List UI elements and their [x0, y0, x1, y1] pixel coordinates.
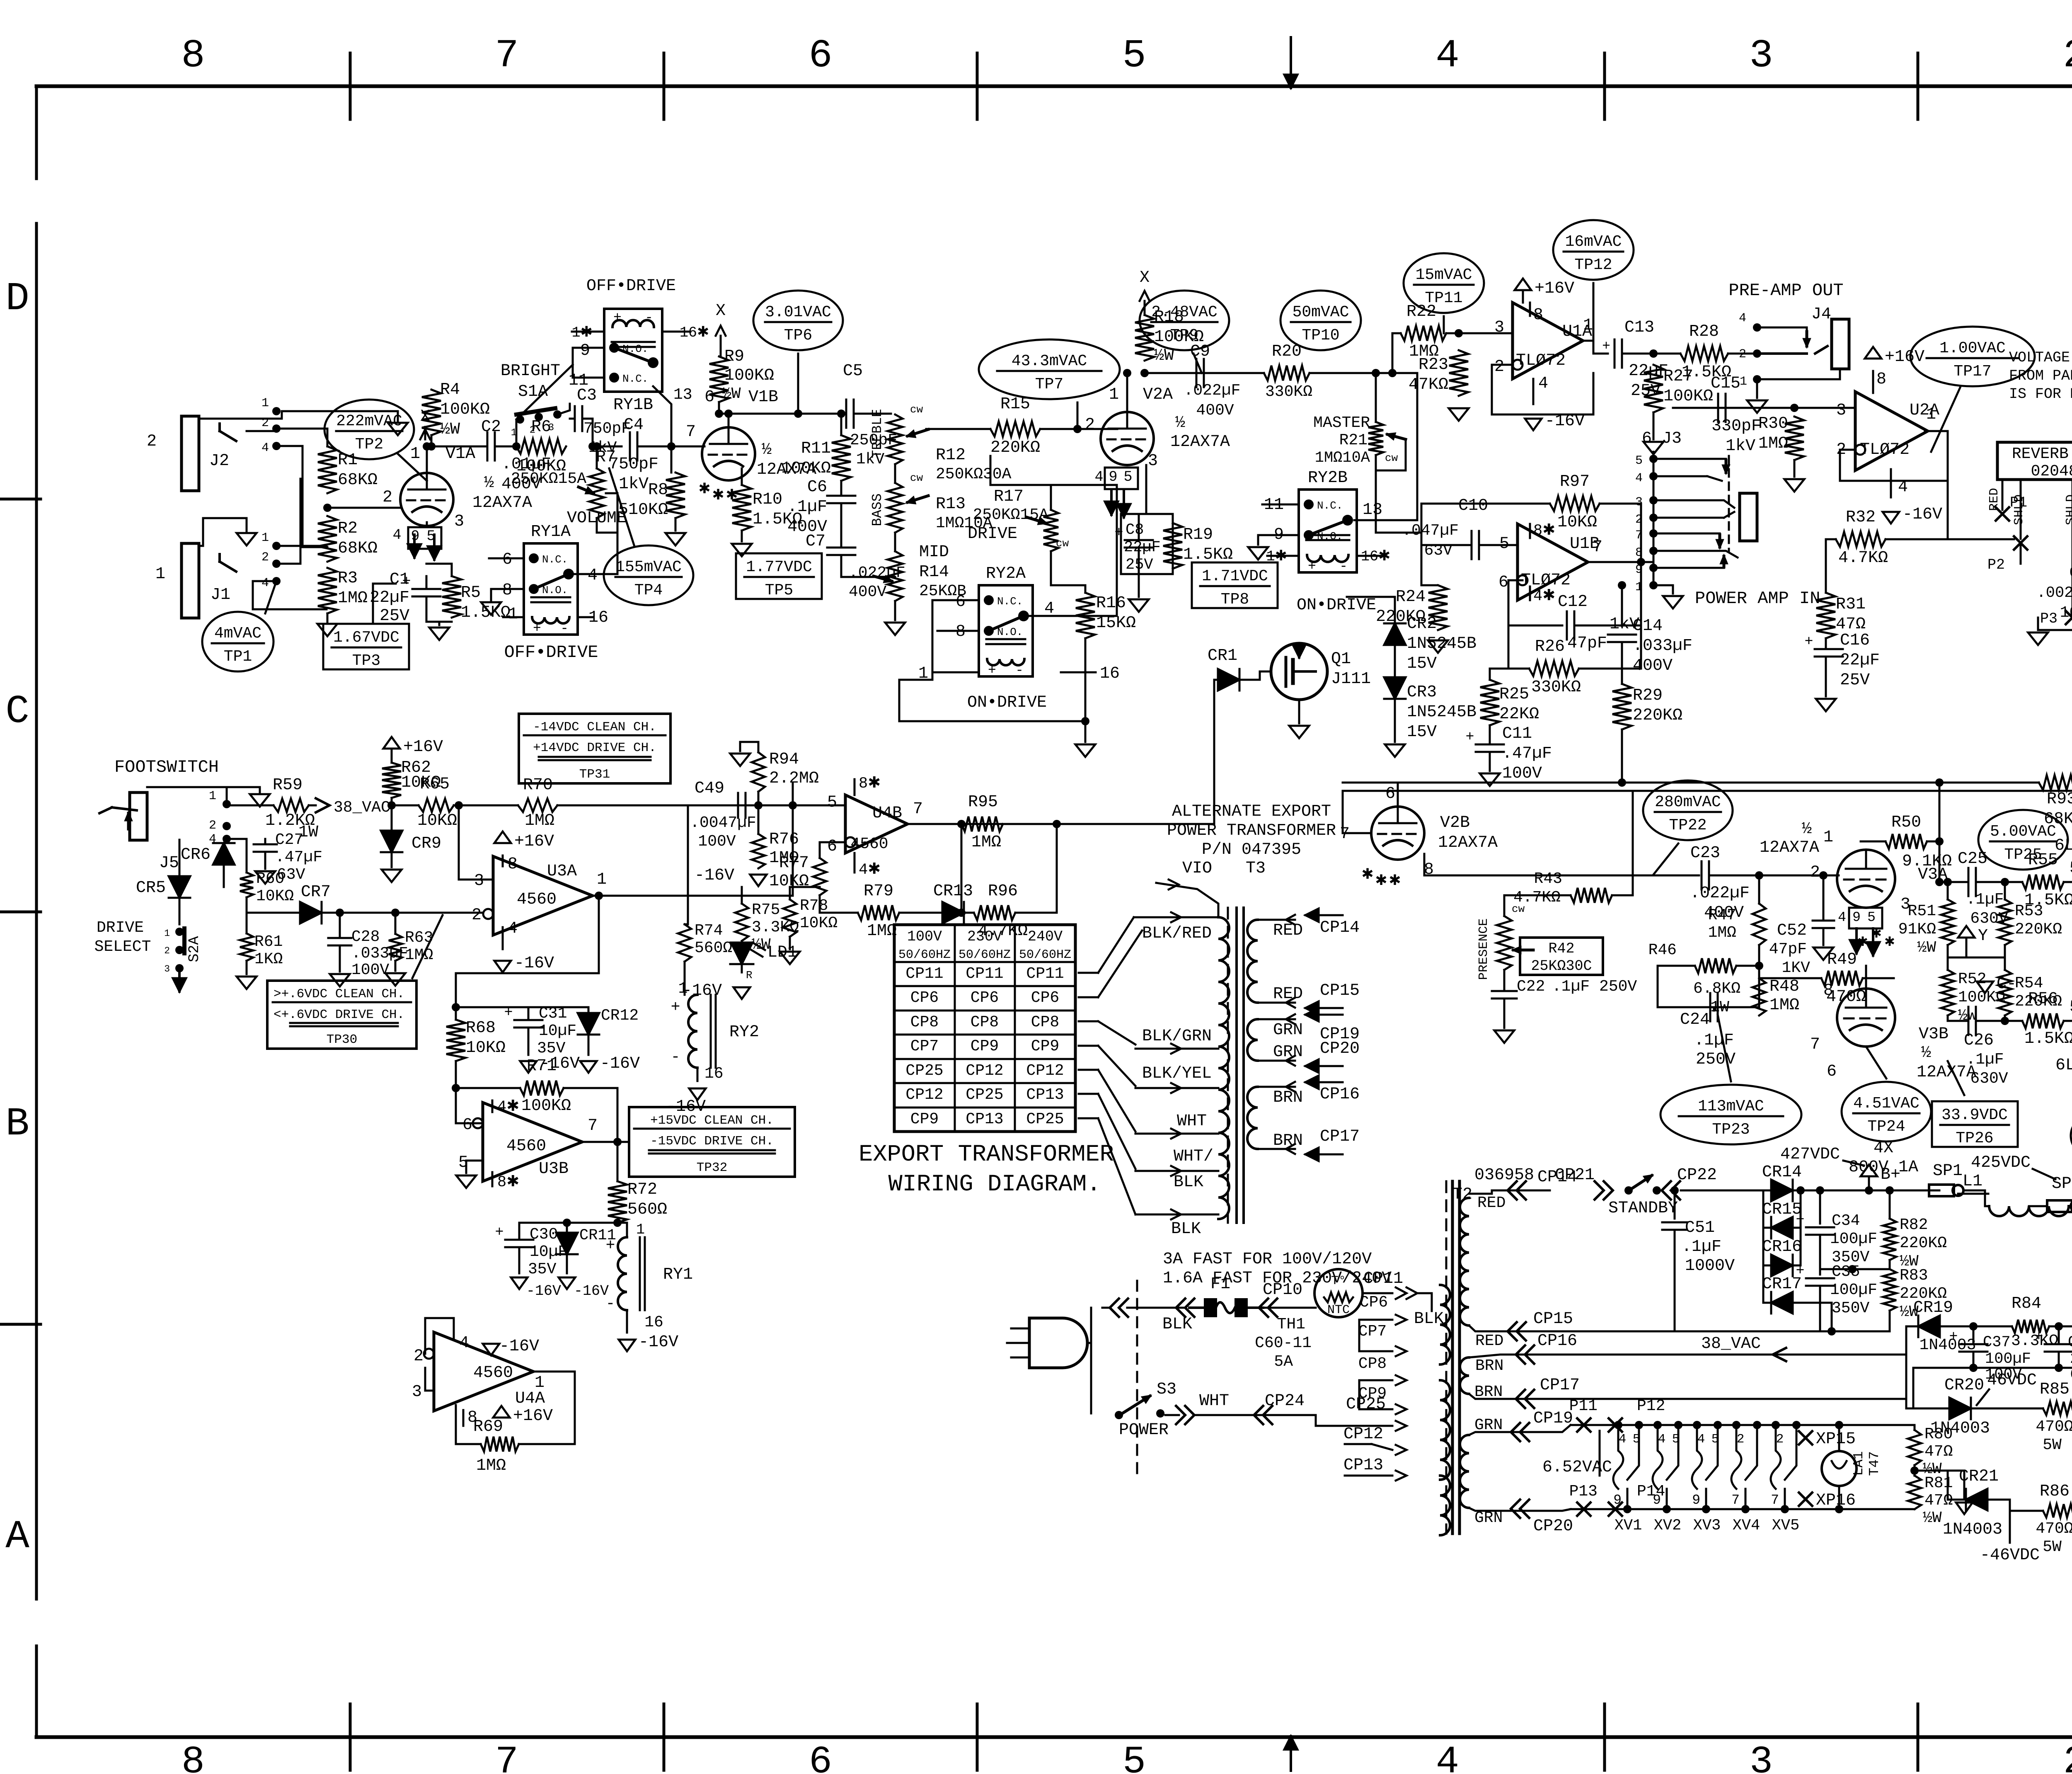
svg-text:WHT: WHT — [1199, 1392, 1229, 1410]
svg-text:4: 4 — [1538, 374, 1548, 393]
-16V R76 — [750, 875, 767, 886]
svg-text:100KΩ: 100KΩ — [724, 366, 774, 385]
svg-text:R83: R83 — [1900, 1267, 1928, 1284]
svg-text:15KΩ: 15KΩ — [1096, 614, 1136, 633]
wire U3A pin3 — [459, 805, 493, 880]
capacitor C30 10uF 35V — [613, 1219, 622, 1227]
capacitor C26 .1uF 630V — [1947, 1015, 1949, 1021]
svg-text:2: 2 — [261, 550, 269, 565]
svg-text:C52: C52 — [1777, 921, 1807, 940]
svg-text:RY1B: RY1B — [613, 396, 653, 414]
svg-text:C23: C23 — [1690, 844, 1720, 863]
treble pot R12 250K30A — [888, 414, 903, 464]
svg-text:5W: 5W — [2043, 1538, 2062, 1556]
svg-text:T°: T° — [1331, 1274, 1346, 1288]
drive pot R17 250K15A — [1043, 510, 1058, 551]
svg-text:4560: 4560 — [517, 890, 557, 909]
svg-text:U4B: U4B — [872, 804, 902, 823]
R42 value box — [1520, 938, 1603, 975]
svg-text:-46VDC: -46VDC — [1980, 1546, 2040, 1565]
svg-text:.047µF: .047µF — [1402, 522, 1459, 540]
resistor R76 1M — [752, 834, 765, 868]
resistor R49 470 — [1821, 971, 1863, 986]
svg-text:-16V: -16V — [499, 1337, 539, 1356]
svg-text:½: ½ — [484, 474, 494, 492]
svg-text:2.48VAC: 2.48VAC — [1151, 303, 1218, 321]
svg-text:1MΩ: 1MΩ — [1769, 996, 1799, 1015]
svg-text:+: + — [504, 1004, 513, 1021]
-16V CR11 — [559, 1277, 575, 1289]
svg-text:RY2: RY2 — [729, 1023, 759, 1042]
border frame — [36, 85, 2072, 88]
ground C1 R5 — [426, 621, 452, 623]
net 38_VAC — [309, 805, 316, 807]
svg-text:CP22: CP22 — [1677, 1166, 1717, 1185]
resistor R69 1M — [481, 1437, 519, 1452]
svg-text:6: 6 — [808, 33, 833, 78]
svg-text:-16V: -16V — [666, 1098, 706, 1116]
svg-text:7: 7 — [1593, 538, 1602, 557]
svg-text:C25: C25 — [1958, 850, 1987, 868]
svg-text:✱: ✱ — [712, 487, 724, 504]
svg-text:+16V: +16V — [403, 738, 443, 756]
resistor R63 1M — [389, 934, 402, 961]
svg-text:TP7: TP7 — [1035, 376, 1063, 393]
svg-text:L1: L1 — [1963, 1172, 1982, 1191]
wire row to RY2B 13 — [1354, 373, 1417, 520]
svg-text:22µF: 22µF — [1124, 539, 1161, 556]
svg-text:CP12: CP12 — [1026, 1062, 1064, 1080]
resistor R11 100K — [832, 435, 851, 481]
resistor R61 1K — [240, 933, 253, 961]
svg-text:CP8: CP8 — [1031, 1013, 1059, 1031]
T2 primary winding — [1440, 1285, 1450, 1364]
-16V CR12 — [580, 1061, 597, 1073]
svg-text:P/N 047395: P/N 047395 — [1202, 841, 1301, 859]
svg-text:TLØ72: TLØ72 — [1516, 351, 1566, 370]
resistor R97 10K — [1421, 504, 1550, 533]
svg-text:-: - — [1015, 663, 1024, 678]
column C14 R29 — [1621, 585, 1623, 626]
svg-text:FOOTSWITCH: FOOTSWITCH — [114, 757, 219, 777]
pan connector P2 — [2014, 536, 2027, 550]
U1A feedback loop — [1492, 365, 1593, 414]
svg-text:2: 2 — [1739, 347, 1746, 361]
ground footswitch — [259, 787, 261, 792]
svg-text:GRN: GRN — [1474, 1416, 1503, 1434]
svg-text:CR20: CR20 — [1944, 1376, 1984, 1395]
zone ticks top/bottom — [349, 53, 352, 119]
svg-text:R16: R16 — [1096, 594, 1126, 613]
resistor R19 1.5K — [1163, 523, 1182, 569]
svg-text:TP12: TP12 — [1574, 256, 1612, 274]
svg-text:4.7KΩ: 4.7KΩ — [1838, 549, 1888, 567]
wire R20 node up to R22 — [1392, 333, 1401, 373]
svg-text:.022µF: .022µF — [1184, 382, 1241, 400]
svg-text:2: 2 — [1494, 358, 1504, 376]
svg-text:250KΩ15A: 250KΩ15A — [511, 470, 587, 488]
svg-text:4: 4 — [1436, 1740, 1459, 1774]
resistor R52 100K halfW — [1941, 970, 1954, 1015]
svg-text:X: X — [716, 302, 726, 320]
svg-text:9: 9 — [1613, 1493, 1622, 1508]
capacitor C2 .01uF 400V — [487, 432, 489, 460]
svg-text:R59: R59 — [273, 776, 303, 795]
svg-text:2.2MΩ: 2.2MΩ — [769, 769, 819, 788]
svg-text:3: 3 — [474, 872, 484, 890]
resistor R54 220K — [1998, 970, 2011, 1015]
svg-text:S2A: S2A — [186, 936, 203, 962]
resistor R4 100K half W — [422, 390, 441, 435]
svg-text:5: 5 — [827, 793, 837, 812]
resistor R74 560 — [678, 924, 691, 962]
capacitor C9 .022uF 400V — [1145, 372, 1205, 374]
svg-text:CP16: CP16 — [1537, 1332, 1577, 1350]
svg-text:B: B — [5, 1101, 29, 1146]
svg-text:400V: 400V — [1633, 657, 1673, 675]
svg-text:630V: 630V — [1970, 1070, 2008, 1088]
svg-text:4: 4 — [588, 566, 598, 585]
wire drive pot bottom — [1051, 551, 1085, 585]
svg-text:CP9: CP9 — [1031, 1037, 1059, 1055]
svg-text:CP8: CP8 — [910, 1013, 939, 1031]
svg-text:46VDC: 46VDC — [1987, 1371, 2037, 1390]
svg-text:.033µF: .033µF — [1633, 637, 1692, 655]
svg-text:7: 7 — [1810, 1035, 1820, 1054]
svg-text:9.1KΩ: 9.1KΩ — [1902, 852, 1952, 871]
svg-text:68KΩ: 68KΩ — [338, 539, 378, 558]
pan connector P1 — [1996, 507, 2009, 521]
tube V2B triode — [1371, 807, 1424, 860]
svg-text:1KΩ: 1KΩ — [254, 950, 283, 968]
svg-text:R50: R50 — [1891, 813, 1921, 832]
svg-text:TP31: TP31 — [579, 767, 610, 782]
svg-text:22µF: 22µF — [370, 589, 409, 607]
svg-text:1: 1 — [535, 1374, 545, 1392]
master pot R21 1M10A — [1368, 422, 1383, 455]
diode CR13 — [942, 902, 964, 923]
wire pin2 down to R1 top — [276, 429, 327, 446]
svg-text:1✱: 1✱ — [572, 325, 593, 341]
svg-text:✱: ✱ — [1389, 873, 1401, 889]
svg-text:1: 1 — [155, 565, 165, 584]
testpoint TP22 oval 280mVAC — [1643, 780, 1733, 840]
svg-text:V2B: V2B — [1440, 814, 1470, 832]
svg-text:5W: 5W — [2043, 1436, 2062, 1454]
svg-text:R70: R70 — [523, 776, 553, 795]
T3 secondary winding GRN — [1247, 1019, 1258, 1061]
svg-text:1.00VAC: 1.00VAC — [1939, 339, 2006, 357]
svg-text:N.O.: N.O. — [542, 584, 568, 596]
testpoint TP25 oval 5.00VAC — [1978, 810, 2068, 870]
svg-text:1MΩ: 1MΩ — [338, 589, 368, 608]
resistor R25 22K — [1490, 669, 1508, 680]
T2 tap GRN CP20 — [1469, 1508, 1571, 1511]
svg-text:VIO: VIO — [1182, 859, 1212, 878]
svg-text:R77: R77 — [779, 854, 809, 872]
svg-text:R7: R7 — [596, 448, 616, 467]
svg-text:CP21: CP21 — [1555, 1166, 1595, 1185]
svg-text:CP6: CP6 — [971, 989, 999, 1007]
capacitor C27 .47uF 63V — [254, 843, 277, 846]
svg-text:R48: R48 — [1769, 977, 1799, 996]
svg-text:TLØ72: TLØ72 — [1860, 441, 1910, 459]
LED LD1 — [731, 943, 753, 964]
svg-text:RY2A: RY2A — [986, 565, 1026, 583]
svg-text:CP13: CP13 — [966, 1110, 1003, 1128]
svg-text:SP2: SP2 — [2052, 1175, 2072, 1193]
svg-text:CP11: CP11 — [905, 965, 943, 983]
svg-text:-: - — [606, 1295, 615, 1313]
T2 tap RED CP15 — [1469, 1326, 1832, 1331]
svg-text:.1µF 250V: .1µF 250V — [1552, 978, 1637, 996]
svg-text:P1: P1 — [2010, 494, 2027, 511]
svg-text:R46: R46 — [1648, 941, 1677, 959]
svg-text:TP8: TP8 — [1221, 591, 1249, 608]
svg-text:Q1: Q1 — [1331, 650, 1351, 669]
testpoint TP10 oval 50mVAC — [1280, 291, 1361, 350]
svg-text:4: 4 — [1094, 469, 1103, 485]
svg-text:16: 16 — [704, 1065, 724, 1083]
svg-text:<+.6VDC DRIVE CH.: <+.6VDC DRIVE CH. — [274, 1008, 404, 1022]
resistor R16 15K — [1076, 593, 1095, 638]
wire V3A grid — [1837, 875, 1839, 877]
svg-text:BLK/YEL: BLK/YEL — [1142, 1064, 1212, 1083]
resistor R86 470 5W — [2043, 1504, 2072, 1517]
resistor R78 10K — [783, 899, 796, 937]
svg-text:5: 5 — [2070, 998, 2072, 1017]
tube V1A triode — [400, 473, 453, 526]
svg-text:N.C.: N.C. — [997, 595, 1023, 608]
T3 secondary winding RED — [1247, 920, 1258, 1003]
wire C49 left down — [687, 805, 689, 924]
svg-text:3.3KΩ: 3.3KΩ — [752, 919, 799, 936]
svg-text:1: 1 — [1823, 828, 1833, 847]
thermistor TH1 NTC — [1314, 1269, 1363, 1317]
jack J1 — [182, 543, 199, 618]
diode CR7 — [300, 902, 322, 923]
svg-text:11: 11 — [569, 371, 588, 390]
capacitor C1 22uF 25V — [412, 588, 441, 590]
jack J5 footswitch — [130, 792, 147, 840]
capacitor C25 .1uF 630V — [1935, 878, 1944, 886]
svg-text:-: - — [671, 1048, 680, 1066]
svg-text:C31: C31 — [539, 1005, 567, 1023]
svg-text:4: 4 — [1635, 471, 1643, 485]
svg-text:XP15: XP15 — [1816, 1430, 1856, 1449]
svg-text:C26: C26 — [1964, 1031, 1994, 1050]
svg-text:R14: R14 — [919, 563, 949, 582]
svg-text:4: 4 — [261, 441, 269, 455]
svg-text:TP10: TP10 — [1302, 327, 1339, 344]
tube V2A triode — [1101, 412, 1154, 465]
capacitor C10 .047uF 63V — [1421, 533, 1471, 545]
svg-text:OFF•DRIVE: OFF•DRIVE — [504, 642, 598, 662]
ground C17 R33 — [2037, 618, 2039, 630]
svg-text:6.52VAC: 6.52VAC — [1542, 1458, 1612, 1477]
svg-text:470Ω: 470Ω — [2036, 1418, 2072, 1436]
svg-text:1MΩ: 1MΩ — [1758, 434, 1788, 453]
svg-text:1MΩ: 1MΩ — [476, 1457, 506, 1475]
svg-text:P13: P13 — [1569, 1483, 1598, 1500]
testpoint TP9 oval 2.48VAC — [1140, 291, 1229, 350]
C- ref arrow — [1977, 982, 1993, 993]
svg-text:WHT/: WHT/ — [1174, 1147, 1213, 1166]
svg-text:+: + — [1602, 339, 1610, 354]
XP16 mark — [1799, 1493, 1812, 1506]
svg-text:R85: R85 — [2040, 1380, 2070, 1399]
reverb pan box — [1997, 442, 2072, 480]
svg-text:CP13: CP13 — [1343, 1456, 1383, 1475]
svg-text:5A: 5A — [1274, 1353, 1293, 1371]
svg-text:1N4003: 1N4003 — [1943, 1520, 2002, 1539]
op-amp U2A — [1855, 392, 1928, 470]
testpoint TP2 oval 222mVAC — [324, 400, 414, 459]
TP2 leader — [398, 454, 427, 481]
J1 pins — [272, 542, 281, 550]
resistor R18 100K halfW — [1135, 315, 1154, 361]
svg-text:EXPORT TRANSFORMER: EXPORT TRANSFORMER — [859, 1141, 1114, 1168]
svg-text:10µF: 10µF — [539, 1022, 576, 1040]
svg-text:GRN: GRN — [1273, 1021, 1303, 1040]
svg-text:J111: J111 — [1331, 670, 1371, 688]
svg-text:CP8: CP8 — [1358, 1355, 1387, 1373]
svg-text:R56: R56 — [2028, 990, 2058, 1008]
svg-text:½: ½ — [1921, 1044, 1931, 1062]
svg-text:R71: R71 — [527, 1057, 557, 1076]
U3A output — [593, 895, 793, 897]
svg-text:R82: R82 — [1900, 1216, 1928, 1234]
svg-text:8✱: 8✱ — [859, 775, 881, 792]
svg-text:68KΩ: 68KΩ — [338, 471, 378, 490]
svg-text:-16V: -16V — [574, 1283, 609, 1299]
svg-text:✱: ✱ — [1361, 867, 1373, 883]
svg-text:DRIVE: DRIVE — [97, 919, 144, 937]
svg-text:+14VDC DRIVE CH.: +14VDC DRIVE CH. — [533, 741, 656, 755]
svg-text:XV4: XV4 — [1733, 1517, 1760, 1534]
svg-text:XV5: XV5 — [1772, 1517, 1800, 1534]
svg-text:100V: 100V — [1502, 764, 1542, 783]
svg-text:+: + — [606, 1237, 615, 1255]
capacitor C12 47pF 1kV — [1508, 580, 1562, 625]
svg-text:33.9VDC: 33.9VDC — [1941, 1106, 2008, 1124]
svg-text:R43: R43 — [1534, 870, 1562, 888]
svg-text:SELECT: SELECT — [94, 938, 151, 956]
svg-text:R3: R3 — [338, 569, 358, 588]
svg-text:XV2: XV2 — [1654, 1517, 1682, 1534]
svg-text:POWER AMP IN: POWER AMP IN — [1695, 589, 1820, 608]
svg-text:4: 4 — [1739, 311, 1746, 325]
svg-text:2: 2 — [1776, 1432, 1784, 1447]
svg-text:+: + — [495, 1224, 503, 1241]
tube V3A triode — [1837, 850, 1895, 908]
svg-text:X: X — [1140, 269, 1150, 287]
svg-text:CP17: CP17 — [1320, 1127, 1360, 1146]
svg-text:1: 1 — [1740, 375, 1747, 389]
svg-text:12AX7A: 12AX7A — [1438, 834, 1498, 852]
capacitor C40 22uF 63V — [2045, 1343, 2072, 1345]
svg-text:POWER: POWER — [1119, 1421, 1169, 1440]
svg-text:1N5245B: 1N5245B — [1407, 703, 1477, 722]
svg-text:4560: 4560 — [506, 1137, 546, 1156]
ground R3 — [327, 613, 329, 622]
svg-text:R42: R42 — [1548, 940, 1574, 957]
svg-text:CP11: CP11 — [1363, 1270, 1403, 1288]
svg-text:250KΩ30A: 250KΩ30A — [936, 465, 1012, 483]
svg-text:U3B: U3B — [539, 1160, 569, 1178]
svg-text:.47µF: .47µF — [1502, 744, 1552, 763]
capacitor C51 .1uF 1000V — [1670, 1186, 1679, 1195]
svg-text:6: 6 — [1385, 785, 1395, 803]
svg-text:1MΩ: 1MΩ — [405, 946, 433, 964]
choke L1 and wire — [1985, 1190, 1989, 1206]
svg-text:C22: C22 — [1517, 978, 1545, 996]
U2A feedback — [1840, 431, 1948, 481]
svg-text:J4: J4 — [1811, 305, 1831, 324]
svg-text:-14VDC CLEAN CH.: -14VDC CLEAN CH. — [533, 720, 656, 734]
wire R62 node to R65 — [392, 805, 419, 807]
svg-text:4✱: 4✱ — [497, 1098, 519, 1116]
svg-text:CP10: CP10 — [1263, 1281, 1302, 1299]
ground J4 — [1756, 379, 1758, 398]
svg-text:+16V: +16V — [1885, 348, 1924, 366]
-16V C31 — [520, 1061, 537, 1073]
svg-text:15mVAC: 15mVAC — [1416, 266, 1472, 284]
svg-text:100V: 100V — [351, 961, 389, 979]
diode CR12 — [578, 1013, 599, 1035]
resistor R94 2.2M — [740, 742, 758, 752]
relay RY2A — [979, 585, 1033, 676]
svg-text:6: 6 — [462, 1116, 472, 1134]
wire U2A out to R32 — [1947, 431, 1949, 539]
svg-text:4: 4 — [261, 576, 269, 590]
node R1-R2 — [323, 504, 332, 512]
svg-text:BRN: BRN — [1273, 1088, 1303, 1107]
svg-text:50/60HZ: 50/60HZ — [959, 948, 1011, 962]
svg-text:TP32: TP32 — [697, 1161, 727, 1175]
ground RY2B pin9 — [1258, 535, 1267, 545]
svg-text:T3: T3 — [1246, 859, 1266, 878]
ground RY2A net — [1084, 721, 1087, 742]
svg-text:BLK/RED: BLK/RED — [1142, 924, 1212, 943]
svg-text:220KΩ: 220KΩ — [2015, 921, 2062, 938]
T3 secondary winding BRN — [1247, 1087, 1258, 1149]
ground J2 — [397, 411, 399, 421]
sheet center arrow top — [1290, 37, 1292, 88]
testpoint TP4 oval 155mVAC — [604, 545, 693, 605]
feedback wire R79 — [820, 912, 858, 914]
svg-text:D: D — [5, 276, 29, 321]
svg-text:P2: P2 — [1987, 557, 2005, 573]
svg-text:47KΩ: 47KΩ — [1409, 376, 1448, 394]
resistor R65 10K — [419, 799, 454, 812]
svg-text:½W: ½W — [722, 385, 741, 403]
svg-text:3: 3 — [412, 1383, 422, 1401]
svg-text:3: 3 — [1148, 452, 1158, 470]
testpoint TP5 box 1.77VDC — [736, 553, 822, 599]
svg-text:BLK/GRN: BLK/GRN — [1142, 1027, 1212, 1046]
wire to C31 CR12 — [456, 1006, 588, 1008]
svg-text:1: 1 — [597, 870, 607, 889]
svg-text:8: 8 — [1876, 370, 1886, 389]
svg-text:R49: R49 — [1827, 950, 1857, 969]
svg-text:5: 5 — [1635, 454, 1643, 468]
svg-text:1: 1 — [508, 605, 518, 624]
svg-text:.0022µF: .0022µF — [2037, 584, 2072, 602]
svg-text:R12: R12 — [936, 446, 966, 465]
resistor R71 100K feedback — [456, 1087, 520, 1089]
svg-text:R26: R26 — [1535, 637, 1565, 656]
